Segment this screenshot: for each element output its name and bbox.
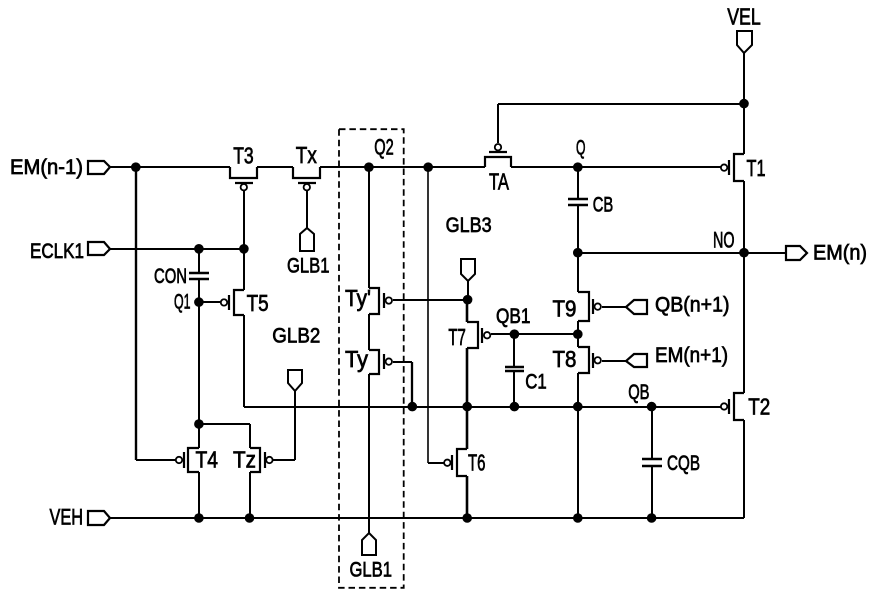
svg-text:VEL: VEL	[727, 3, 761, 29]
svg-text:T9: T9	[553, 295, 577, 321]
svg-text:T7: T7	[448, 324, 466, 350]
svg-text:T1: T1	[747, 155, 766, 181]
svg-text:CB: CB	[593, 194, 614, 217]
svg-text:GLB3: GLB3	[446, 214, 492, 237]
svg-text:C1: C1	[525, 371, 547, 394]
svg-text:T3: T3	[233, 143, 254, 169]
svg-text:QB1: QB1	[496, 305, 531, 328]
svg-text:CON: CON	[154, 265, 187, 288]
svg-text:Ty: Ty	[345, 346, 368, 372]
svg-text:EM(n-1): EM(n-1)	[10, 156, 83, 179]
svg-text:QB: QB	[628, 381, 649, 404]
svg-text:ECLK1: ECLK1	[30, 240, 84, 263]
svg-text:Tz: Tz	[233, 447, 256, 473]
svg-text:NO: NO	[713, 228, 735, 253]
svg-text:Q: Q	[576, 137, 586, 160]
svg-text:T5: T5	[247, 290, 269, 316]
svg-text:GLB1: GLB1	[287, 255, 330, 278]
svg-text:GLB2: GLB2	[272, 325, 320, 348]
svg-text:TA: TA	[489, 169, 509, 195]
svg-text:GLB1: GLB1	[350, 559, 393, 582]
svg-text:EM(n): EM(n)	[813, 242, 867, 265]
svg-text:Tx: Tx	[296, 142, 317, 168]
svg-text:Q2: Q2	[374, 135, 394, 160]
svg-text:T2: T2	[748, 394, 770, 420]
svg-text:Ty': Ty'	[345, 285, 371, 311]
svg-text:QB(n+1): QB(n+1)	[655, 294, 730, 317]
svg-text:VEH: VEH	[50, 505, 84, 530]
svg-text:CQB: CQB	[667, 452, 700, 475]
svg-text:T6: T6	[468, 450, 486, 476]
svg-text:T4: T4	[196, 447, 219, 473]
svg-text:Q1: Q1	[174, 291, 191, 314]
svg-text:T8: T8	[553, 346, 577, 372]
svg-text:EM(n+1): EM(n+1)	[655, 344, 728, 367]
